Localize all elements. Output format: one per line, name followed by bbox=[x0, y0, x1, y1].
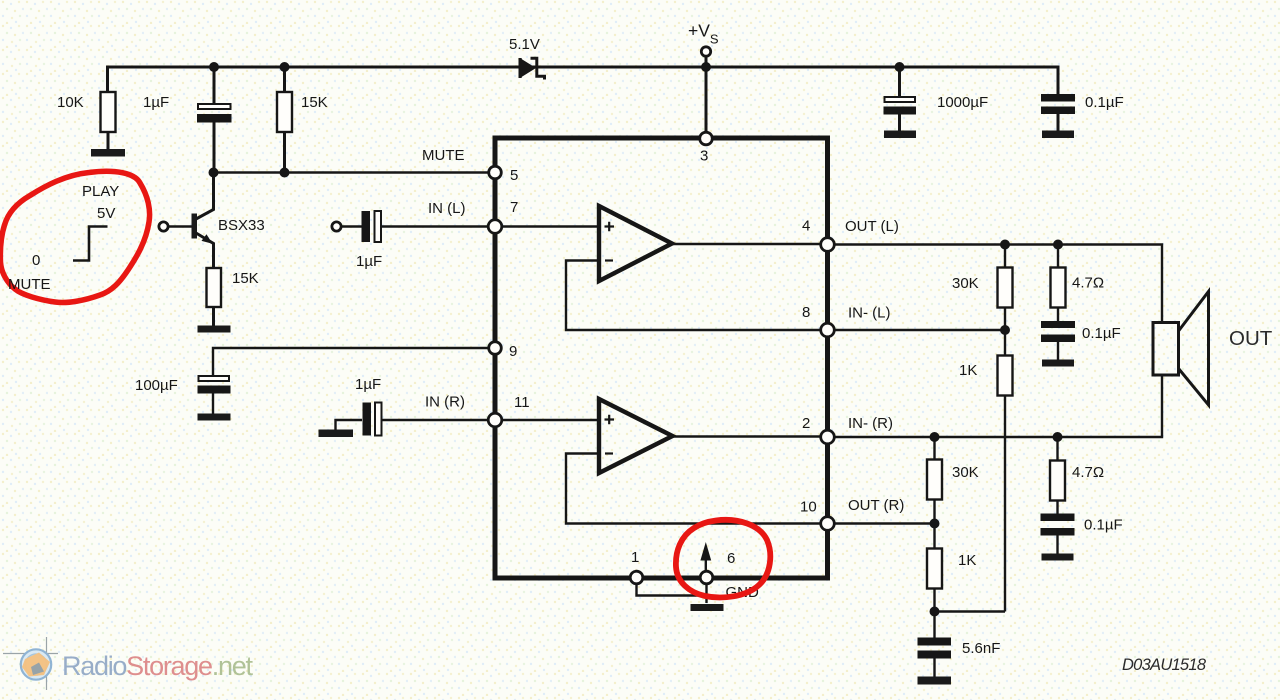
terminal mute drive input bbox=[159, 222, 168, 231]
logo crosshair bbox=[3, 637, 58, 690]
svg-text:OUT (R): OUT (R) bbox=[848, 497, 904, 514]
junction 1K to 5.6nF bbox=[930, 607, 940, 617]
speaker driver bbox=[1153, 323, 1179, 376]
arrow at pin 6 bbox=[700, 542, 711, 572]
resistor 4.7R right bbox=[1050, 437, 1065, 514]
junction top rail at 1uF bbox=[209, 62, 219, 72]
svg-text:10K: 10K bbox=[57, 94, 84, 111]
wire feedback B to pin 10 and OUT R bbox=[566, 454, 935, 524]
step waveform symbol bbox=[73, 227, 108, 261]
ground under 0.1uF left bbox=[1042, 360, 1074, 367]
svg-text:0: 0 bbox=[32, 252, 40, 269]
svg-text:1µF: 1µF bbox=[143, 94, 169, 111]
pin 3 bbox=[700, 132, 713, 145]
capacitor 1uF IN L bbox=[362, 211, 496, 242]
junction OUT L at 4.7R bbox=[1053, 240, 1063, 250]
capacitor C1 1uF supply bbox=[197, 67, 232, 173]
ground under 1000uF bbox=[884, 131, 916, 139]
wire 10K to ground bbox=[107, 132, 110, 150]
pin 10 bbox=[821, 517, 835, 531]
svg-text:OUT (L): OUT (L) bbox=[845, 218, 899, 235]
junction top rail at 1000uF bbox=[895, 62, 905, 72]
svg-text:1µF: 1µF bbox=[355, 376, 381, 393]
op-amp U1A bbox=[599, 206, 672, 281]
svg-text:3: 3 bbox=[700, 148, 708, 165]
IC TDA7053 box bbox=[495, 138, 828, 578]
wire pin 9 to 100uF bbox=[213, 348, 495, 376]
zener diode 5.1V bbox=[519, 58, 545, 80]
ground under 5.6nF bbox=[918, 677, 952, 685]
ground under emitter 15K bbox=[198, 326, 231, 333]
ground under 0.1uF right bbox=[1042, 554, 1074, 561]
svg-text:OUT: OUT bbox=[1229, 327, 1273, 350]
junction OUT R at 30K/1K bbox=[930, 519, 940, 529]
svg-text:7: 7 bbox=[510, 199, 518, 216]
svg-text:100µF: 100µF bbox=[135, 377, 178, 394]
svg-text:PLAY: PLAY bbox=[82, 183, 119, 200]
svg-text:9: 9 bbox=[509, 343, 517, 360]
wire IN L to cap bbox=[341, 225, 362, 227]
wire base bbox=[168, 225, 191, 227]
svg-text:MUTE: MUTE bbox=[8, 276, 51, 293]
red annotation blob around PLAY/MUTE bbox=[0, 171, 149, 302]
svg-text:5.6nF: 5.6nF bbox=[962, 640, 1000, 657]
wire emitter diagonal bbox=[196, 233, 214, 268]
svg-text:30K: 30K bbox=[952, 275, 979, 292]
svg-text:15K: 15K bbox=[232, 270, 259, 287]
wire op-amp A output OUT L rail bbox=[672, 244, 1162, 323]
wire +Vs down to pin 3 bbox=[705, 56, 708, 133]
svg-text:30K: 30K bbox=[952, 464, 979, 481]
pin 11 bbox=[488, 413, 502, 427]
junction MUTE rail at 15K bbox=[280, 168, 290, 178]
wire MUTE rail to pin 5 bbox=[214, 171, 496, 173]
svg-text:IN (R): IN (R) bbox=[425, 394, 465, 411]
junction MUTE rail at 1uF bbox=[209, 168, 219, 178]
ground under 100uF bbox=[198, 414, 231, 421]
svg-text:4.7Ω: 4.7Ω bbox=[1072, 464, 1104, 481]
wire 15K emitter to ground bbox=[212, 307, 215, 326]
svg-text:1K: 1K bbox=[959, 362, 977, 379]
capacitor 1uF IN R bbox=[363, 403, 496, 436]
svg-text:11: 11 bbox=[514, 394, 530, 411]
resistor 15K emitter bbox=[207, 268, 222, 307]
resistor 10K bbox=[101, 92, 116, 132]
capacitor 0.1uF supply bbox=[1041, 94, 1075, 131]
svg-text:IN (L): IN (L) bbox=[428, 200, 466, 217]
ground IN R input bbox=[319, 420, 363, 437]
junction OUT L at 30K bbox=[1000, 240, 1010, 250]
resistor 1K left bbox=[998, 330, 1013, 612]
junction top rail at +Vs bbox=[701, 62, 711, 72]
svg-text:1µF: 1µF bbox=[356, 253, 382, 270]
wire pin 1 to pin 6 ground bbox=[637, 584, 707, 596]
pin 1 bbox=[630, 571, 643, 584]
speaker horn bbox=[1179, 292, 1209, 406]
logo globe bbox=[21, 649, 51, 679]
svg-text:IN- (L): IN- (L) bbox=[848, 305, 891, 322]
wire pin 11 to op-amp B bbox=[495, 419, 599, 421]
wire collector from MUTE rail bbox=[196, 173, 214, 220]
wire top supply rail bbox=[108, 67, 1059, 95]
svg-text:10: 10 bbox=[800, 499, 817, 516]
op-amp U1B bbox=[599, 399, 673, 473]
pin 7 bbox=[488, 220, 502, 234]
svg-text:1000µF: 1000µF bbox=[937, 94, 988, 111]
svg-text:D03AU1518: D03AU1518 bbox=[1122, 656, 1207, 674]
capacitor 0.1uF left bbox=[1041, 321, 1075, 360]
svg-text:8: 8 bbox=[802, 304, 810, 321]
pin 4 bbox=[821, 238, 835, 252]
wire feedback A to pin 8 and IN- L rail bbox=[566, 261, 1005, 331]
svg-text:1: 1 bbox=[631, 549, 639, 566]
resistor 30K left bbox=[998, 245, 1013, 331]
svg-text:15K: 15K bbox=[301, 94, 328, 111]
capacitor 0.1uF right bbox=[1041, 514, 1075, 555]
ground under 0.1uF supply bbox=[1042, 131, 1074, 139]
terminal IN L bbox=[332, 222, 341, 231]
terminal +Vs bbox=[701, 47, 710, 56]
pin 8 bbox=[821, 323, 835, 337]
svg-text:5V: 5V bbox=[97, 205, 115, 222]
svg-text:BSX33: BSX33 bbox=[218, 217, 265, 234]
ground under 10K bbox=[91, 149, 125, 157]
resistor 4.7R left bbox=[1051, 245, 1066, 322]
junction top rail at 15K bbox=[280, 62, 290, 72]
capacitor 5.6nF bbox=[918, 612, 952, 678]
pin 5 bbox=[489, 166, 502, 179]
pin 6 bbox=[700, 571, 713, 584]
resistor 15K top bbox=[277, 67, 292, 173]
resistor 1K right bbox=[927, 524, 942, 613]
wire joining 1K chains bbox=[935, 610, 1006, 612]
red annotation circle around pin 6 bbox=[676, 520, 770, 598]
junction IN- R at 4.7R bbox=[1053, 432, 1063, 442]
junction IN- L at 30K/1K bbox=[1000, 325, 1010, 335]
wire op-amp B output IN- R rail bbox=[673, 375, 1163, 437]
pin 9 bbox=[489, 342, 502, 355]
svg-text:MUTE: MUTE bbox=[422, 147, 465, 164]
capacitor 100uF bbox=[198, 376, 231, 414]
svg-text:IN- (R): IN- (R) bbox=[848, 415, 893, 432]
arrow emitter bbox=[202, 234, 213, 243]
svg-text:6: 6 bbox=[727, 550, 735, 567]
svg-text:0.1µF: 0.1µF bbox=[1082, 325, 1121, 342]
pin 2 bbox=[821, 430, 835, 444]
svg-text:5.1V: 5.1V bbox=[509, 36, 540, 53]
svg-text:0.1µF: 0.1µF bbox=[1085, 94, 1124, 111]
wire pin 7 to op-amp A bbox=[495, 225, 599, 227]
ground pin 6 bbox=[691, 584, 724, 611]
junction IN- R at 30K bbox=[930, 432, 940, 442]
svg-text:4.7Ω: 4.7Ω bbox=[1072, 275, 1104, 292]
resistor 30K right bbox=[927, 437, 942, 524]
svg-text:5: 5 bbox=[510, 167, 518, 184]
svg-text:0.1µF: 0.1µF bbox=[1084, 517, 1123, 534]
transistor Q1 BSX33 base bar bbox=[192, 214, 198, 239]
svg-text:RadioStorage.net: RadioStorage.net bbox=[62, 651, 253, 681]
svg-text:4: 4 bbox=[802, 218, 810, 235]
svg-text:2: 2 bbox=[802, 415, 810, 432]
svg-text:1K: 1K bbox=[958, 552, 976, 569]
capacitor 1000uF bbox=[884, 67, 917, 131]
